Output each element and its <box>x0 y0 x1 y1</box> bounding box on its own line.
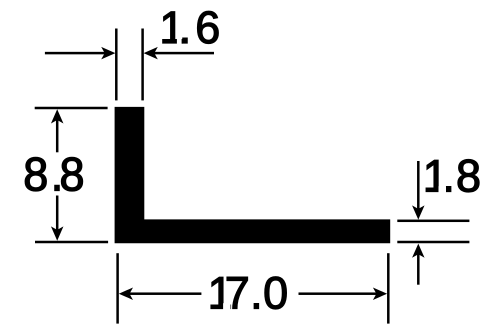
svg-text:1.8: 1.8 <box>423 151 481 202</box>
dimension 8.8: bottom extension line <box>35 241 108 244</box>
dimension 17.0: right extension line <box>387 253 390 323</box>
dimension 17.0: left extension line <box>116 253 119 323</box>
dimension 1.6: right arrow shaft <box>154 52 214 55</box>
dimension 8.8: top extension line <box>35 107 108 110</box>
dimension label 8.8 <box>23 147 84 200</box>
dimension 1.8: down arrowhead <box>412 205 425 219</box>
svg-text:1.6: 1.6 <box>159 2 220 53</box>
dimension 1.8: down arrow shaft <box>417 161 420 209</box>
dimension 8.8: down arrow shaft <box>56 196 59 231</box>
dimension 8.8: up arrow shaft <box>56 120 59 153</box>
dimension 17.0: left arrow shaft <box>129 292 201 295</box>
dimension 8.8: up arrowhead <box>51 109 64 123</box>
dimension 8.8: down arrowhead <box>51 226 64 240</box>
dimension 1.8: bottom extension line <box>397 241 469 244</box>
dimension 17.0: right arrowhead <box>373 287 387 300</box>
dimension 1.6: left extension line <box>115 29 118 101</box>
foot trim of digit 1 in label 1.8 <box>439 186 447 194</box>
dimension 1.8: up arrowhead <box>412 244 425 258</box>
foot trim of digit 1 in label 1.6 <box>177 37 182 45</box>
dimension 1.6: left arrow shaft <box>45 52 105 55</box>
svg-text:8.8: 8.8 <box>23 147 84 200</box>
angle profile (L-shape cross-section) <box>115 107 391 243</box>
dimension 1.6: left arrowhead <box>101 47 115 60</box>
dimension 1.8: up arrow shaft <box>417 254 420 285</box>
dimension 17.0: right arrow shaft <box>299 292 377 295</box>
foot trim of digit 1 in label 17.0 <box>223 303 230 311</box>
dimension 1.6: right arrowhead <box>144 47 158 60</box>
dimension 1.8: top extension line <box>397 220 469 223</box>
dimension 1.6: right extension line <box>141 29 144 101</box>
dimension 17.0: left arrowhead <box>119 287 133 300</box>
svg-text:17.0: 17.0 <box>208 268 289 319</box>
